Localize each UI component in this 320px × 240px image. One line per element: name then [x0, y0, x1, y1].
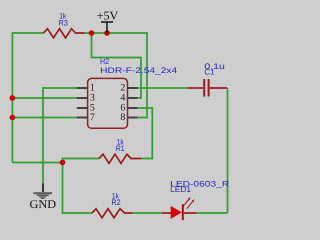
- wire left rail to pin 7: [12, 117, 77, 119]
- wire left rail bottom to node B: [12, 162, 63, 164]
- resistor R1: [99, 154, 141, 163]
- power flag +5V: [97, 8, 119, 33]
- svg-text:HDR-F-2.54_2x4: HDR-F-2.54_2x4: [100, 66, 178, 75]
- junction node A (R3 / pin-4 branch): [89, 30, 95, 36]
- wire LED cathode to right rail: [197, 212, 228, 214]
- wire node A down and over to pin 4: [92, 33, 142, 98]
- wire left rail to pin 3: [12, 97, 77, 99]
- svg-text:+5V: +5V: [97, 8, 119, 22]
- capacitor C1: [188, 79, 227, 97]
- svg-text:R3: R3: [58, 18, 68, 27]
- wire right vertical rail C1 to LED row: [227, 88, 229, 213]
- resistor R3: [44, 29, 85, 38]
- svg-text:H2: H2: [100, 57, 109, 66]
- svg-text:R1: R1: [116, 144, 125, 153]
- LED emission arrow 1: [183, 197, 191, 207]
- wire R2 to LED anode: [133, 212, 163, 214]
- wire node B jog up to R1 left lead: [63, 159, 100, 163]
- svg-text:8: 8: [120, 112, 125, 123]
- LED emission arrow 2: [187, 199, 195, 209]
- header H2 body: [88, 78, 128, 128]
- svg-text:C1: C1: [204, 68, 215, 77]
- wire pin 2 to C1 left lead: [137, 87, 188, 89]
- header H2 right pin stubs (pins 2,4,6,8): [128, 88, 138, 118]
- junction node +5V tap: [104, 30, 110, 36]
- wire R1 right lead up to pin 6: [137, 108, 152, 159]
- junction left rail / pin 7: [10, 115, 16, 121]
- LED D1: [162, 204, 197, 220]
- junction left rail / pin 3: [10, 95, 16, 101]
- wire node B down to R2 left lead: [63, 163, 93, 214]
- ground symbol: [33, 184, 52, 200]
- svg-text:7: 7: [90, 112, 95, 123]
- svg-text:GND: GND: [30, 197, 57, 211]
- svg-text:LED1: LED1: [170, 185, 191, 194]
- wire pin 1 to ground: [43, 88, 77, 184]
- svg-text:R2: R2: [111, 198, 121, 207]
- junction node B (R1 / R2 split): [60, 160, 66, 166]
- wire +5V rail: left vertical and top run to R3: [12, 33, 43, 163]
- wire R3 right lead to top-right corner down to pin 8: [85, 33, 148, 118]
- header H2 left pin stubs (pins 1,3,5,7): [77, 88, 88, 118]
- resistor R2: [92, 209, 133, 218]
